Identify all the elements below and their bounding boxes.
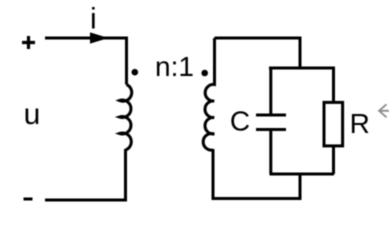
wire secondary bottom lead [213, 149, 300, 199]
svg-text:i: i [90, 3, 97, 36]
wire capacitor top stub [269, 68, 272, 114]
minus terminal label [24, 198, 33, 201]
svg-text:R: R [350, 108, 370, 139]
wire resistor bottom stub [332, 146, 335, 174]
svg-text:n:1: n:1 [155, 51, 194, 82]
wire resistor top stub [332, 68, 335, 102]
resistor R body [324, 102, 343, 145]
wire capacitor bottom stub [269, 131, 272, 174]
gray cursor arrow at right edge [379, 104, 389, 117]
polarity dot primary [132, 69, 139, 76]
capacitor C plates [256, 115, 286, 130]
current arrow on top wire [90, 32, 109, 43]
wire inner bottom rail [270, 173, 335, 176]
wire secondary top lead [215, 38, 301, 68]
inductor primary winding [120, 85, 132, 151]
wire top-left horizontal from + terminal to primary [45, 38, 127, 85]
wire primary bottom lead [45, 149, 126, 200]
svg-text:u: u [24, 98, 41, 131]
plus terminal label [22, 36, 35, 49]
inductor secondary winding [203, 38, 214, 150]
polarity dot secondary [201, 70, 208, 77]
svg-text:C: C [230, 106, 250, 137]
wire inner top rail [269, 67, 335, 70]
